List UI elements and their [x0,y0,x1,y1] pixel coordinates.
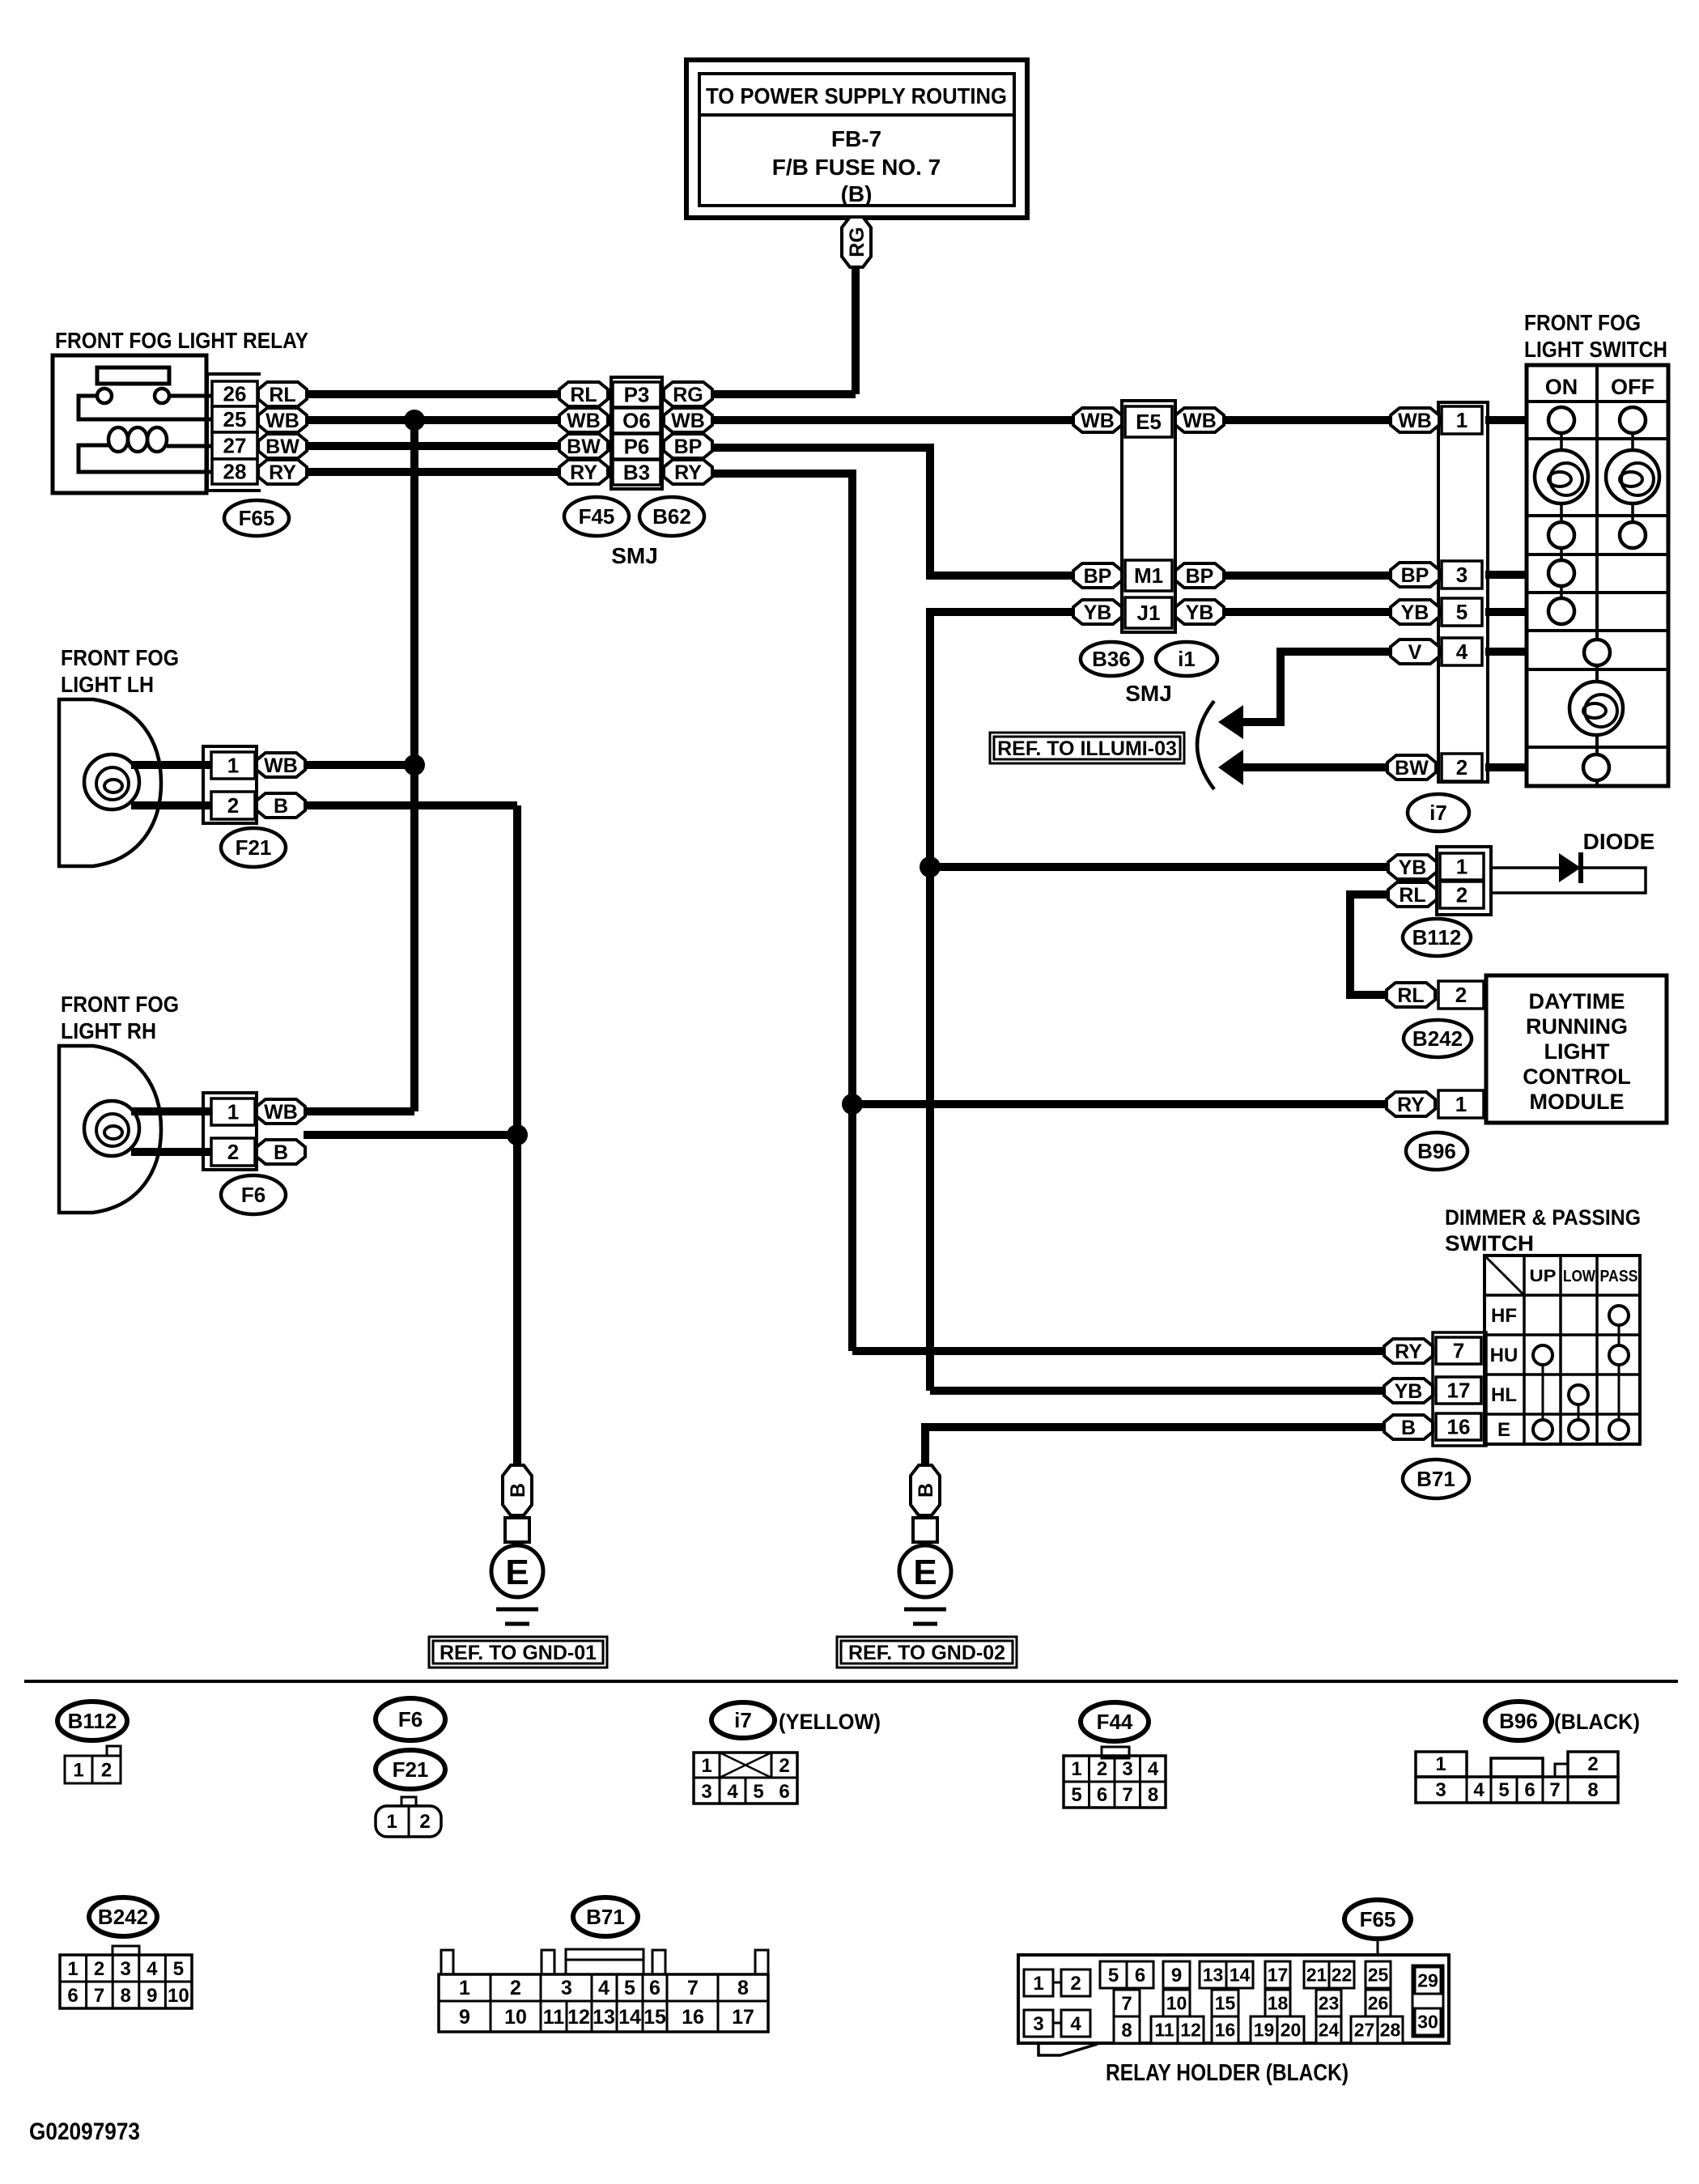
separator line [24,1680,1678,1683]
svg-text:9: 9 [147,1985,157,2007]
svg-text:RG: RG [673,384,703,406]
svg-text:M1: M1 [1134,563,1163,588]
svg-text:4: 4 [1070,2013,1081,2035]
relay holder cells 5-8 [1100,1961,1153,2043]
switch S1 illumination lamp chain [1569,639,1623,780]
wire color tag BP at switch [1391,563,1439,587]
svg-text:12: 12 [1180,2020,1201,2041]
wire BW to illumination reference [1243,763,1387,771]
svg-text:REF. TO ILLUMI-03: REF. TO ILLUMI-03 [997,737,1177,760]
svg-text:YB: YB [1395,1380,1423,1403]
svg-text:B: B [915,1483,937,1498]
svg-text:F65: F65 [1360,1907,1396,1931]
connector F21 pinout [376,1797,441,1837]
connector label B71 bottom [573,1897,638,1936]
svg-text:B71: B71 [1417,1467,1455,1491]
svg-text:RL: RL [1397,984,1424,1007]
svg-text:RY: RY [674,461,702,484]
svg-text:4: 4 [1473,1779,1485,1801]
pin 2 [1442,754,1482,781]
svg-text:B: B [274,795,288,818]
svg-text:1: 1 [227,1100,239,1124]
wire RY relay to SMJ [307,468,559,476]
svg-text:2: 2 [1456,883,1468,907]
svg-text:2: 2 [1455,983,1467,1007]
relay K1 coil [79,427,212,472]
relay holder cells 1-4 [1024,1969,1090,2037]
svg-text:SMJ: SMJ [611,543,658,568]
svg-text:2: 2 [1070,1973,1081,1995]
svg-text:LIGHT: LIGHT [1544,1039,1610,1064]
pin 25 [212,406,257,432]
connector i7 column at switch [1438,402,1488,782]
wire WB E5 to switch [1224,416,1391,424]
connector F65 pin block at relay [207,374,261,491]
wire color tag RY at dimmer [1384,1339,1433,1363]
svg-text:3: 3 [1122,1758,1132,1780]
svg-text:LIGHT SWITCH: LIGHT SWITCH [1524,337,1667,362]
wire color tag RY left of SMJ [559,460,608,484]
ground G2 connector [913,1518,937,1542]
svg-text:BW: BW [1395,757,1429,780]
arrow BW to ILLUMI-03 [1218,750,1243,785]
wire B dimmer to ground [925,1427,1384,1467]
svg-text:1: 1 [227,754,239,778]
svg-text:BP: BP [1186,565,1214,588]
pin 1 diode [1440,853,1484,880]
svg-text:3: 3 [1456,563,1468,587]
wire color tag WB right of E5 [1175,408,1224,432]
svg-text:6: 6 [649,1977,660,1999]
wire color tag B at LH [257,793,305,818]
connector label B62 [639,497,704,536]
connector F44 pinout [1064,1747,1166,1808]
svg-text:YB: YB [1401,601,1429,624]
relay K1 body [53,355,206,493]
svg-text:P6: P6 [624,435,650,459]
pin 26 [212,381,257,406]
svg-text:HF: HF [1491,1305,1517,1327]
svg-text:5: 5 [173,1958,184,1980]
svg-text:MODULE: MODULE [1530,1090,1625,1114]
connector B242 pinout [60,1946,192,2008]
connector label F65 [224,500,289,536]
wire color tag BW left of SMJ [559,434,608,458]
wire color tag V at switch [1391,639,1439,664]
svg-text:6: 6 [1097,1784,1107,1806]
svg-text:BP: BP [1084,565,1112,588]
wire color tag RG [842,217,871,267]
svg-text:8: 8 [737,1977,749,1999]
wire V to illumination reference [1243,652,1391,722]
svg-text:WB: WB [1183,410,1217,432]
wire BP M1 to switch [1224,571,1391,580]
svg-text:ON: ON [1545,375,1578,399]
reference box REF. TO GND-02 [837,1637,1017,1668]
SMJ cell P3 [613,382,660,407]
connector B112 pin block [1437,847,1491,915]
connector label F21 bottom [376,1750,445,1789]
relay holder cells 25-28 [1351,1961,1403,2043]
junction WB at fog light LH [404,754,425,775]
wire RL diode to DRL module [1350,894,1388,995]
wire YB branch to diode [930,863,1388,871]
svg-text:19: 19 [1254,2020,1275,2041]
svg-text:LIGHT RH: LIGHT RH [61,1018,156,1043]
svg-text:i7: i7 [734,1708,752,1732]
pin 1 DRL module [1438,1090,1484,1118]
svg-text:4: 4 [147,1958,158,1980]
svg-text:5: 5 [1498,1779,1509,1801]
connector label F45 [564,497,629,536]
svg-text:13: 13 [593,2006,615,2029]
svg-text:2: 2 [779,1755,789,1777]
svg-text:18: 18 [1268,1993,1289,2014]
switch S2 grid [1485,1256,1640,1444]
wire B LH to ground net [305,801,517,809]
wire color tag B at dimmer [1384,1415,1433,1439]
pin 2 LH [211,792,255,819]
svg-text:17: 17 [1447,1379,1471,1403]
pin 1 LH [211,752,255,779]
svg-text:DIODE: DIODE [1583,829,1655,854]
SMJ cell E5 [1125,406,1172,437]
wire B RH to ground net [304,1131,517,1139]
svg-text:B62: B62 [652,504,691,529]
svg-text:F21: F21 [393,1757,429,1782]
svg-text:27: 27 [1354,2020,1375,2041]
svg-text:2: 2 [94,1958,104,1980]
svg-text:B: B [274,1141,288,1164]
svg-text:B112: B112 [1412,925,1462,950]
wire RG net from fuse box to SMJ [712,269,856,394]
svg-text:24: 24 [1319,2020,1340,2041]
svg-text:1: 1 [1455,1092,1467,1116]
reference box REF. TO GND-01 [429,1637,607,1668]
svg-text:3: 3 [701,1781,711,1803]
pin 17 [1436,1377,1481,1404]
svg-text:8: 8 [121,1985,131,2007]
svg-text:(YELLOW): (YELLOW) [779,1710,881,1734]
relay K1 contact [79,389,212,419]
pin 16 [1436,1413,1481,1440]
switch S1 OFF column contacts [1606,407,1659,548]
connector B71 pinout [439,1949,768,2032]
svg-text:F21: F21 [236,835,272,860]
SMJ cell B3 [613,460,660,485]
lamp LH housing [59,699,161,866]
svg-text:2: 2 [1587,1753,1598,1775]
wire color tag YB right of J1 [1175,600,1224,624]
ground G2 symbol E [899,1545,951,1624]
switch S1 ON column contacts [1535,407,1588,624]
wire WB SMJ to E5 [712,416,1073,424]
pin 4 [1442,638,1482,665]
svg-text:22: 22 [1332,1965,1353,1986]
svg-text:RG: RG [846,227,869,257]
svg-text:LOW: LOW [1563,1268,1595,1285]
svg-text:B242: B242 [98,1905,148,1929]
wire BW relay to SMJ [307,442,559,450]
pin 1 [1442,406,1482,434]
ground G1 black wire tag [503,1465,532,1515]
svg-text:4: 4 [727,1781,738,1803]
svg-text:FRONT FOG: FRONT FOG [1524,310,1641,335]
svg-text:17: 17 [732,2006,754,2029]
svg-text:8: 8 [1587,1779,1598,1801]
reference arc ILLUMI-03 [1197,701,1214,789]
svg-text:RY: RY [1395,1341,1422,1363]
svg-text:25: 25 [1368,1965,1389,1986]
svg-text:BP: BP [1401,564,1429,587]
svg-text:SWITCH: SWITCH [1445,1231,1534,1256]
wire color tag YB left of J1 [1073,600,1122,624]
lamp RH bulb [84,1101,139,1156]
svg-text:6: 6 [1135,1965,1145,1986]
svg-text:HL: HL [1491,1384,1517,1406]
ground G1 connector [505,1518,529,1542]
svg-text:8: 8 [1121,2020,1132,2042]
ground G1 symbol E [491,1545,543,1624]
svg-text:RY: RY [1397,1094,1425,1116]
wire color tag RL left of SMJ [559,382,608,406]
svg-text:7: 7 [687,1977,699,1999]
wire color tag WB right of SMJ [664,408,712,432]
connector label B96 bottom [1485,1702,1552,1740]
svg-text:F6: F6 [241,1183,265,1207]
connector label B112 bottom [57,1702,127,1740]
SMJ connector F45/B62 middle block [611,377,662,489]
svg-text:2: 2 [101,1759,112,1781]
svg-text:YB: YB [1084,601,1112,624]
svg-text:WB: WB [671,410,705,432]
svg-text:F65: F65 [239,506,275,530]
connector label B96 [1406,1132,1468,1170]
switch S1 FRONT FOG LIGHT SWITCH label [1524,310,1667,362]
svg-text:28: 28 [223,460,247,484]
svg-text:G02097973: G02097973 [29,2118,140,2145]
svg-text:E: E [505,1553,529,1592]
svg-text:J1: J1 [1137,601,1161,625]
svg-text:2: 2 [227,793,239,818]
svg-text:4: 4 [1456,639,1468,664]
switch S2 UP column contacts [1533,1345,1552,1439]
svg-text:B3: B3 [623,461,650,485]
pin 2 diode [1440,882,1484,908]
svg-text:8: 8 [1148,1784,1158,1806]
svg-text:WB: WB [265,410,299,432]
SMJ cell M1 [1125,560,1172,591]
pin 3 [1442,561,1482,588]
svg-text:RL: RL [570,384,597,406]
connector label F65 bottom [1344,1900,1411,1939]
SMJ cell O6 [613,408,660,433]
pin 2 RH [211,1138,255,1166]
wire color tag RY at DRL module [1387,1092,1435,1116]
svg-text:BP: BP [674,436,703,458]
svg-text:1: 1 [1456,408,1468,432]
wire color tag RL at diode [1388,882,1437,907]
pin 27 [212,432,257,459]
svg-text:RY: RY [570,461,597,484]
svg-text:4: 4 [598,1977,610,1999]
wire color tag RY right of SMJ [664,460,712,484]
connector label i7 [1408,794,1469,831]
wire color tag YB at dimmer [1384,1379,1433,1403]
junction RY net [842,1094,863,1115]
svg-text:5: 5 [1071,1784,1081,1806]
lamp LH bulb [84,754,139,809]
svg-text:30: 30 [1417,2012,1438,2033]
svg-text:10: 10 [1166,1993,1187,2014]
wire RH lamp stubs [131,1107,211,1115]
wire color tag YB at diode [1388,855,1437,879]
connector label B112 [1403,919,1471,956]
svg-text:B242: B242 [1412,1026,1463,1051]
wire WB relay to SMJ [307,416,559,424]
wire color tag WB at RH [257,1099,305,1124]
wire WB vertical to fog lights [410,420,418,1111]
wire color tag BP right of SMJ [664,434,712,458]
power supply routing reference box FB-7 [686,60,1027,218]
connector F6 block [203,1093,257,1170]
svg-text:25: 25 [223,407,247,431]
svg-text:6: 6 [779,1781,789,1803]
svg-text:RL: RL [1399,884,1425,907]
connector label B71 [1403,1460,1469,1498]
svg-text:11: 11 [543,2006,565,2029]
svg-text:WB: WB [264,1101,298,1124]
svg-text:CONTROL: CONTROL [1523,1064,1630,1089]
svg-text:DAYTIME: DAYTIME [1528,989,1625,1013]
svg-text:B36: B36 [1092,647,1131,671]
switch S2 LOW column contacts [1569,1385,1588,1439]
svg-text:15: 15 [1215,1993,1236,2014]
svg-text:3: 3 [121,1958,131,1980]
pin 5 [1442,598,1482,626]
svg-text:16: 16 [682,2006,704,2029]
svg-text:F44: F44 [1097,1710,1133,1734]
wire color tag WB at switch [1391,408,1439,432]
daytime running light control module U1 [1486,975,1667,1123]
wire color tag BP left of M1 [1073,563,1122,588]
SMJ cell J1 [1125,597,1172,628]
svg-text:B96: B96 [1417,1139,1456,1163]
svg-text:RY: RY [269,461,296,484]
svg-text:E5: E5 [1136,410,1162,434]
svg-text:29: 29 [1417,1970,1438,1991]
ground G2 black wire tag [911,1465,940,1515]
svg-text:1: 1 [1435,1753,1446,1775]
svg-text:B: B [507,1483,529,1498]
svg-text:14: 14 [1230,1965,1251,1986]
svg-text:16: 16 [1447,1415,1471,1439]
svg-text:1: 1 [1033,1973,1043,1995]
wire RY SMJ down to dimmer switch [712,474,1384,1351]
wire WB LH to junction [305,761,414,769]
svg-text:15: 15 [643,2006,666,2029]
svg-text:7: 7 [1549,1779,1560,1801]
wire YB down to diode and dimmer [930,612,1384,1391]
wire color tag WB left of E5 [1073,408,1122,432]
relay holder cells 9-12 [1151,1961,1204,2043]
svg-text:23: 23 [1319,1993,1340,2014]
wire color tag BW [258,434,307,458]
svg-text:TO POWER SUPPLY ROUTING: TO POWER SUPPLY ROUTING [706,83,1007,108]
svg-text:2: 2 [227,1140,239,1164]
wire color tag WB at LH [257,753,305,777]
relay holder cells 17-20 [1251,1961,1304,2043]
relay holder cells 13-16 [1200,1961,1253,2043]
svg-text:6: 6 [1524,1779,1535,1801]
svg-text:4: 4 [1148,1758,1159,1780]
svg-text:1: 1 [67,1958,78,1980]
connector B112 pinout [65,1746,121,1783]
svg-text:FRONT FOG: FRONT FOG [61,645,179,670]
svg-text:V: V [1408,641,1422,664]
svg-text:FRONT FOG: FRONT FOG [61,992,179,1017]
lamp RH housing [59,1046,161,1213]
svg-text:(BLACK): (BLACK) [1554,1710,1640,1734]
connector label i7 bottom [711,1702,775,1738]
svg-text:3: 3 [561,1977,572,1999]
wire color tag WB left of SMJ [559,408,608,432]
svg-text:12: 12 [567,2006,590,2029]
svg-text:14: 14 [618,2006,641,2029]
svg-text:RUNNING: RUNNING [1526,1014,1628,1039]
svg-text:E: E [1497,1419,1510,1441]
svg-text:7: 7 [1121,1993,1132,2015]
svg-text:6: 6 [67,1985,78,2007]
svg-text:16: 16 [1215,2020,1236,2041]
svg-text:3: 3 [1435,1779,1446,1801]
connector label B242 [1404,1020,1472,1057]
svg-text:11: 11 [1154,2020,1174,2041]
svg-text:B112: B112 [68,1709,117,1733]
wire color tag RG right of SMJ [664,382,712,406]
diode D1 circuit [1491,852,1646,893]
svg-text:WB: WB [264,754,298,777]
svg-text:B96: B96 [1499,1709,1538,1733]
svg-text:B: B [1401,1417,1416,1439]
wire color tag BW at switch [1387,755,1436,780]
wire color tag WB [258,408,307,432]
connector label F21 [221,828,286,867]
svg-text:10: 10 [168,1985,189,2007]
svg-text:F45: F45 [579,504,615,529]
svg-text:1: 1 [1071,1758,1081,1780]
SMJ cell P6 [613,434,660,459]
wire color tag YB at switch [1391,600,1439,624]
svg-text:F6: F6 [398,1707,423,1731]
connector label i1 [1156,642,1217,676]
svg-text:UP: UP [1530,1267,1557,1285]
svg-text:(B): (B) [841,181,873,206]
svg-text:F/B FUSE NO. 7: F/B FUSE NO. 7 [772,155,941,180]
wire RL relay to SMJ [307,390,559,398]
svg-text:5: 5 [753,1781,763,1803]
wire color tag BP right of M1 [1175,563,1224,588]
junction B net [507,1124,528,1145]
svg-text:2: 2 [1097,1758,1107,1780]
connector B71 pin block [1433,1332,1486,1446]
stub wires switch pins [1485,420,1527,767]
wire color tag RL at DRL module [1387,983,1435,1007]
svg-text:OFF: OFF [1611,375,1654,399]
wire RY branch to DRL module [852,1100,1387,1108]
lamp FRONT FOG LIGHT RH label [61,992,179,1043]
relay holder cells 29-30 [1412,1965,1443,2037]
